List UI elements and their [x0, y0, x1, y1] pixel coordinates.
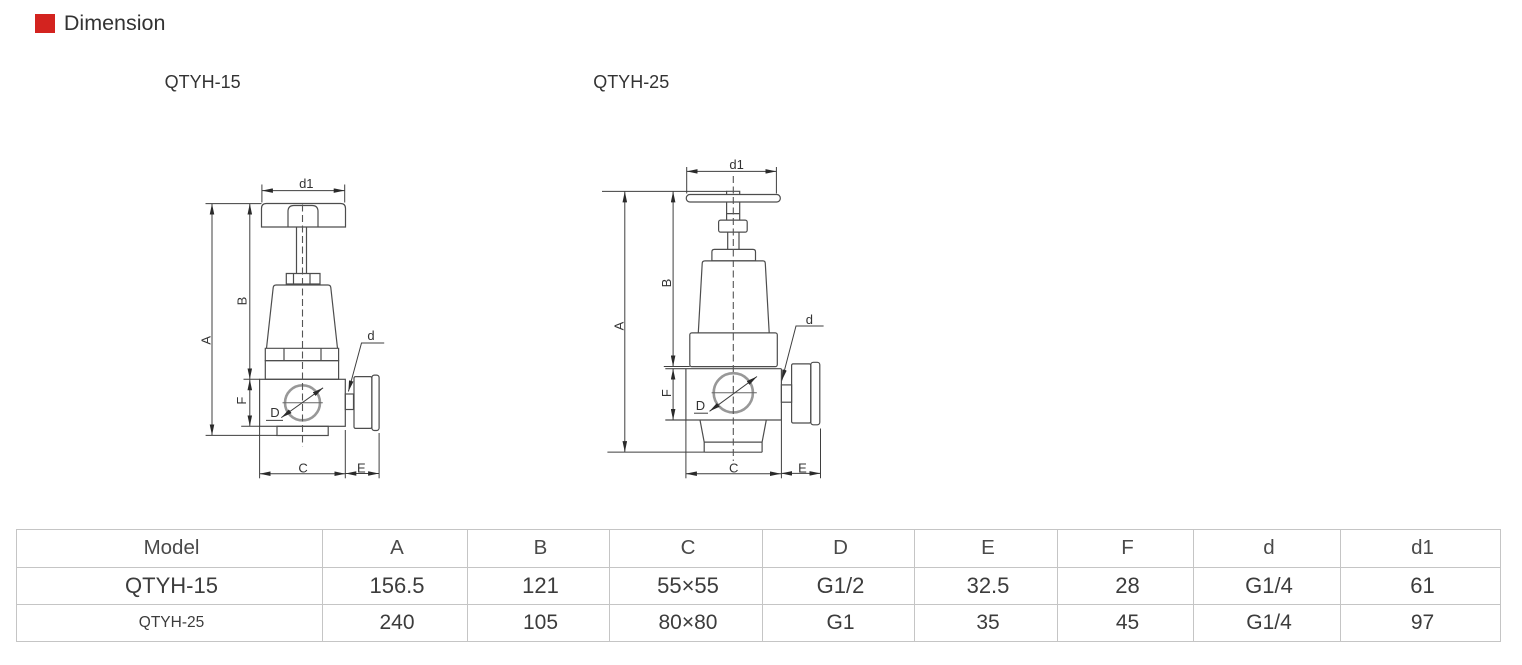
- B dimension line: [249, 204, 251, 380]
- stem above handle: [727, 191, 740, 194]
- port circle: [285, 385, 320, 420]
- E dimension line: [345, 473, 379, 475]
- circle crosshair: [283, 402, 323, 404]
- A dimension line right: [624, 191, 626, 452]
- gauge boss: [781, 385, 791, 402]
- top extension line: [206, 203, 262, 205]
- stem: [297, 227, 307, 274]
- C right extension right: [780, 420, 782, 478]
- bottom tail: [700, 420, 766, 452]
- dimension labels left valve: [199, 176, 375, 475]
- E right extension right: [820, 429, 822, 479]
- svg-text:C: C: [298, 460, 307, 475]
- gauge back plate: [811, 362, 820, 425]
- bonnet hex band: [265, 348, 338, 360]
- centerline dashed right: [732, 176, 734, 461]
- body sides and bottom: [665, 369, 781, 420]
- spring housing: [267, 285, 338, 348]
- dimension labels right valve: [612, 157, 814, 475]
- svg-text:B: B: [659, 279, 674, 288]
- stem below nut: [728, 232, 739, 249]
- lock nut: [719, 220, 748, 232]
- D diameter arrow right: [710, 377, 758, 412]
- svg-text:E: E: [798, 460, 807, 475]
- svg-text:d1: d1: [299, 176, 313, 191]
- svg-text:d: d: [367, 328, 374, 343]
- band bottom extension: [664, 366, 690, 368]
- caption QTYH-15: [165, 73, 241, 91]
- stem below handle: [727, 202, 740, 220]
- C left extension: [259, 426, 261, 478]
- centerline dashed: [302, 205, 304, 447]
- caption QTYH-25: [593, 73, 669, 91]
- housing top cap: [712, 249, 756, 261]
- gauge dial: [354, 377, 372, 429]
- E right extension: [378, 433, 380, 478]
- gauge boss: [345, 394, 353, 410]
- A dimension line: [211, 204, 213, 436]
- d1 extension lines: [262, 185, 345, 203]
- svg-text:E: E: [357, 460, 366, 475]
- F dimension line right: [672, 369, 674, 420]
- A bottom extension right: [607, 451, 704, 453]
- B dimension line right: [672, 191, 674, 366]
- E dimension line right: [781, 472, 821, 474]
- F dimension line: [249, 379, 251, 426]
- body top line with extension: [665, 368, 781, 370]
- gauge dial: [792, 364, 811, 423]
- D leader underline: [266, 419, 283, 421]
- D leader underline right: [694, 412, 708, 414]
- circle crosshair right: [712, 392, 757, 394]
- svg-text:A: A: [612, 321, 627, 330]
- knob dome: [288, 206, 318, 228]
- svg-text:C: C: [729, 460, 738, 475]
- D diameter arrow: [281, 388, 323, 418]
- svg-text:A: A: [199, 336, 214, 345]
- adjusting nut: [286, 274, 320, 285]
- bonnet band: [690, 333, 778, 367]
- svg-text:D: D: [270, 405, 279, 420]
- svg-text:d: d: [806, 312, 813, 327]
- F bottom extension: [241, 425, 259, 427]
- svg-text:F: F: [659, 389, 674, 397]
- C left extension right: [685, 420, 687, 478]
- header red square + Dimension title: [35, 14, 55, 34]
- svg-text:D: D: [696, 398, 705, 413]
- top extension line right: [602, 190, 727, 192]
- d leader: [348, 343, 384, 392]
- svg-text:F: F: [234, 397, 249, 405]
- C dimension line: [260, 473, 346, 475]
- gauge back plate: [372, 375, 379, 430]
- T handle bar: [686, 195, 780, 203]
- bottom plate: [277, 426, 328, 435]
- svg-text:d1: d1: [729, 157, 743, 172]
- d1 dimension line: [262, 190, 345, 192]
- bonnet lower band: [265, 361, 338, 380]
- main body: [260, 379, 346, 426]
- C right extension: [344, 430, 346, 478]
- A bottom extension: [206, 434, 277, 436]
- port circle right: [714, 373, 753, 412]
- d1 extension lines right: [687, 167, 777, 194]
- F top extension: [244, 378, 260, 380]
- knob outer: [262, 204, 346, 228]
- d leader right: [782, 326, 824, 381]
- d1 dimension line right: [687, 170, 777, 172]
- svg-text:B: B: [235, 297, 250, 306]
- dimension table: [16, 529, 1501, 642]
- spring housing: [698, 261, 769, 333]
- C dimension line right: [686, 473, 781, 475]
